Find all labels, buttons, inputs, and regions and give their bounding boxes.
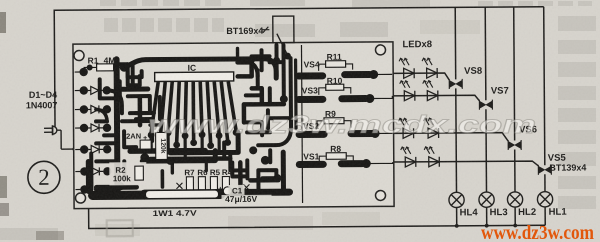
filler trace loop B xyxy=(136,117,152,121)
LED D-row2b xyxy=(423,81,438,101)
junction nodes on bottom rail xyxy=(455,224,517,228)
mounting hole top-left xyxy=(74,51,84,61)
lamp HL3 xyxy=(479,192,494,207)
wire trace hook right of R1 bus xyxy=(264,59,277,79)
svg-text:www.dz3w.mcdx.com: www.dz3w.mcdx.com xyxy=(148,111,536,139)
trace lower right riser 3 xyxy=(268,150,272,162)
LED D-row3b xyxy=(423,118,438,138)
resistor R8 xyxy=(319,153,353,163)
trace vertical left bus xyxy=(114,59,121,194)
mounting hole bottom-left xyxy=(75,193,85,203)
trace up right xyxy=(281,45,285,96)
trace center horizontal 2 xyxy=(142,151,215,162)
thyristor VS7 xyxy=(479,100,492,110)
filler left column lower xyxy=(89,153,93,189)
LED D-row4b xyxy=(424,147,439,167)
VS4 lead bars xyxy=(299,75,370,76)
resistor R1 xyxy=(84,63,129,72)
LED D-row2a xyxy=(400,81,415,101)
filler trace extra6 xyxy=(262,176,281,180)
diode D1 xyxy=(91,86,99,94)
node plug-board junction xyxy=(72,147,77,152)
filler trace extra11 xyxy=(104,133,117,137)
filler trace H (right of IC) xyxy=(238,60,252,65)
trace right wrap xyxy=(244,88,262,122)
VS3 lead bars xyxy=(299,95,366,103)
capacitor C1 body xyxy=(223,187,231,195)
IC legs xyxy=(151,81,236,144)
misc pads xyxy=(116,53,292,191)
zener 1W1 body on bus xyxy=(145,190,218,199)
thyristor VS5 xyxy=(538,165,551,175)
bottom return rail wire xyxy=(89,206,546,229)
resistors R7 R6 R5 R4 bodies xyxy=(186,176,229,189)
BT169 module outline xyxy=(273,16,294,55)
trace lower right riser 2 xyxy=(258,170,276,193)
leg pads xyxy=(148,129,240,149)
trace stub xyxy=(96,159,117,163)
channel 4 wire (VS8/HL4) xyxy=(454,7,457,79)
ghost bleed box (decorative) xyxy=(107,220,133,236)
filler trace extra5 xyxy=(281,152,286,190)
resistor 120k vertical xyxy=(156,132,168,159)
LED row 3 wire xyxy=(393,133,509,142)
LED row 4 wire xyxy=(393,161,539,167)
trace right mid join xyxy=(262,102,284,107)
top supply rail wire xyxy=(54,7,544,127)
VS2 lead bars xyxy=(299,133,372,134)
channel 3 wire (VS7/HL3) xyxy=(484,7,487,100)
vertical trace line xyxy=(301,45,302,203)
LED row 2 wire xyxy=(392,95,479,101)
trace up to board top (BT169) xyxy=(274,45,278,76)
svg-text:www.dz3w.com: www.dz3w.com xyxy=(481,223,594,242)
trace lower right riser 1 xyxy=(238,162,243,193)
filler trace extra4 xyxy=(266,110,270,128)
mounting hole bottom-right xyxy=(375,190,385,200)
filler trace extra2 xyxy=(158,97,162,119)
D1-D4 rectifier column xyxy=(75,72,104,190)
lamp HL4 xyxy=(449,192,464,207)
diode D4 xyxy=(91,145,99,153)
filler trace extra15 xyxy=(150,123,160,126)
LED D-row1b xyxy=(422,58,437,78)
resistor R2 body xyxy=(135,166,144,180)
capacitor small + mark xyxy=(140,135,151,149)
filler trace extra14 xyxy=(232,162,244,176)
channel 1 wire (VS5/HL1) xyxy=(544,7,545,165)
trace hook left mid xyxy=(128,96,150,113)
LED D-row3a xyxy=(398,118,413,138)
lamp HL1 xyxy=(537,192,552,207)
channel 2 wire (VS6/HL2) xyxy=(513,7,516,140)
bottom bus left riser xyxy=(86,161,91,191)
lamp HL2 xyxy=(507,192,522,207)
filler trace extra8 xyxy=(236,48,239,56)
bottom bus left xyxy=(93,191,145,200)
trace center horizontal 1 xyxy=(130,148,205,154)
filler right-of-IC extra xyxy=(260,50,264,70)
pointer arrow xyxy=(261,27,269,33)
filler trace extra13 xyxy=(171,161,174,173)
diode D5 xyxy=(91,167,99,175)
LED D-row4a xyxy=(401,147,416,167)
edge bleed marks xyxy=(0,12,64,240)
figure number circled 2 xyxy=(28,161,60,193)
filler trace E xyxy=(107,90,122,113)
solder x mark 2 xyxy=(243,184,249,190)
VS1 lead bars xyxy=(299,160,362,168)
thyristor VS8 xyxy=(449,79,462,89)
mains plug xyxy=(44,125,74,149)
bottom bus right xyxy=(220,189,289,196)
bottom bus center (under 1W1) xyxy=(145,189,221,200)
filler block left-of-IC xyxy=(131,65,135,89)
trace under IC legs xyxy=(170,132,238,152)
resistor R10 xyxy=(319,84,351,95)
filler trace G (under IC riser set) xyxy=(150,137,153,151)
LED D-row1a xyxy=(399,58,414,78)
filler trace extra16 xyxy=(205,159,208,171)
filler trace extra10 xyxy=(246,93,262,97)
trace center riser xyxy=(150,119,154,141)
trace branch upper left xyxy=(117,64,140,85)
wire trace R1 feed xyxy=(124,59,264,67)
filler trace loop A xyxy=(128,64,142,77)
thyristor VS6 xyxy=(508,140,521,150)
resistor R9 xyxy=(317,118,351,128)
resistor R11 xyxy=(319,61,353,71)
filler lower center extra xyxy=(150,156,230,161)
filler trace extra3 xyxy=(294,60,298,128)
IC outline xyxy=(155,72,234,82)
diode D3 xyxy=(91,124,99,132)
trace right of IC hook xyxy=(238,62,252,76)
LED row 1 wire xyxy=(392,73,449,80)
filler trace extra12 xyxy=(122,161,126,179)
solder x mark 1 xyxy=(176,183,182,189)
board outline xyxy=(73,42,394,209)
filler trace I (lower mid) xyxy=(230,152,246,170)
filler trace C xyxy=(124,131,136,147)
filler trace extra1 xyxy=(122,119,150,123)
mounting hole top-right xyxy=(375,45,385,55)
filler trace extra7 xyxy=(96,141,115,145)
trace right column xyxy=(258,58,292,145)
diode D2 xyxy=(91,105,99,113)
filler trace extra9 xyxy=(250,62,258,76)
